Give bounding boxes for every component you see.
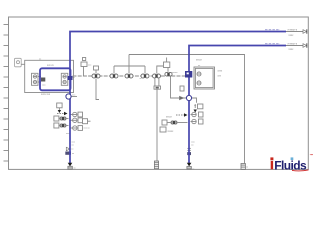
svg-text:xxx xx: xxx xx (84, 128, 91, 130)
svg-text:xxxx xxx: xxxx xxx (41, 93, 51, 96)
svg-text:xxxxx: xxxxx (172, 72, 178, 74)
svg-text:xxx xx: xxx xx (47, 64, 54, 67)
svg-text:x-xxxx-x: x-xxxx-x (288, 28, 298, 31)
svg-text:x-xxxx-x: x-xxxx-x (288, 42, 298, 45)
svg-text:xxxx: xxxx (289, 34, 295, 37)
svg-text:xxxxx: xxxxx (196, 60, 203, 62)
svg-text:xxxxx: xxxxx (166, 116, 173, 118)
svg-text:™: ™ (310, 154, 314, 158)
svg-text:Fluids: Fluids (274, 158, 307, 172)
svg-text:xxxx: xxxx (289, 48, 295, 51)
svg-text:xxxxx: xxxxx (168, 131, 175, 133)
